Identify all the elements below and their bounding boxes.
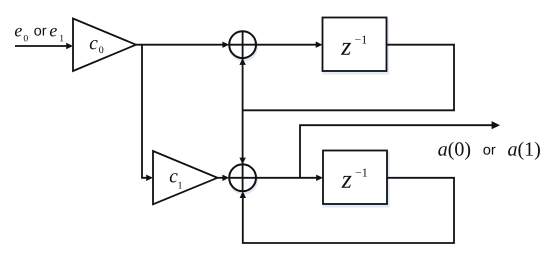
shadow under adder S1 (230, 34, 257, 61)
delay Z2 (z^-1 box, bottom) (323, 151, 387, 205)
input label sub 0 (24, 35, 28, 41)
feedback wire from delay Z1 to node B (243, 45, 454, 111)
label c0 sub 0 (99, 46, 103, 53)
input label e0 (15, 28, 22, 37)
gain c1 (triangle) (153, 151, 218, 204)
arrowhead into gain c1 (146, 175, 153, 181)
label z2 z (341, 176, 351, 188)
arrowhead into adder S1 (222, 42, 229, 48)
adder S2 (circle with plus) (229, 164, 256, 191)
wire c0 apex to adder S1 (136, 44, 225, 46)
feedback wire from delay Z2 to adder S2 (243, 178, 454, 243)
label z2 sup -1 (356, 169, 367, 177)
input label sub 1 (60, 35, 63, 41)
input label or (34, 28, 46, 36)
arrowhead into delay Z1 (316, 42, 323, 48)
output arrowhead (492, 121, 500, 129)
output label a (438, 146, 447, 156)
wire adder S1 to delay Z1 (256, 44, 318, 46)
output tap wire (up from junction, then right) (300, 125, 493, 178)
wire node B up to adder S1 (arrow up) and down to adder S2 (arrow down) (242, 58, 244, 164)
output label or (483, 147, 495, 155)
label c1 sub 1 (178, 182, 182, 189)
label c0 c (90, 40, 98, 49)
shadow under delay Z2 box (324, 153, 389, 206)
arrowhead up into adder S2 bottom (240, 191, 246, 198)
label z1 z (341, 43, 351, 55)
arrowhead into adder S2 (222, 175, 229, 181)
label c1 c (170, 173, 178, 182)
output label (0) (449, 142, 471, 160)
adder S1 (circle with plus) (229, 31, 256, 58)
label z1 sup -1 (355, 36, 366, 44)
shadow under adder S2 (230, 167, 257, 194)
wire c1 apex to adder S2 (218, 177, 225, 179)
arrowhead up into adder S1 bottom (239, 58, 245, 65)
shadow under delay Z1 box (324, 20, 389, 73)
wire adder S2 to delay Z2 (with junction at output tap) (256, 177, 319, 179)
delay Z1 (z^-1 box, top) (323, 18, 387, 72)
input label e1 (50, 28, 57, 37)
input wire (15, 45, 68, 47)
arrowhead into gain c0 (66, 43, 73, 49)
arrowhead into delay Z2 (316, 175, 323, 181)
output label a2 (508, 146, 517, 156)
arrowhead down into adder S2 top (239, 158, 245, 165)
wire branch from node at (142,44.7) down to gain c1 (142, 45, 149, 178)
gain c0 (triangle) (73, 19, 136, 72)
output label (1) (518, 142, 540, 160)
